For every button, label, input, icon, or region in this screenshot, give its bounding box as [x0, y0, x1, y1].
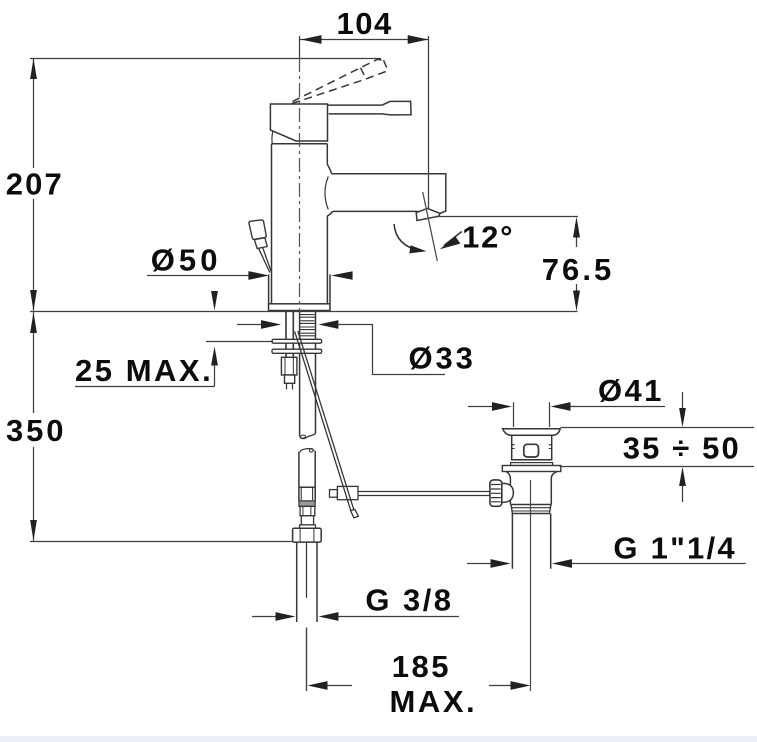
drain centerline — [530, 480, 532, 691]
supply tube lower section — [299, 451, 315, 488]
svg-text:G 1"1/4: G 1"1/4 — [613, 531, 735, 566]
svg-text:185: 185 — [392, 649, 449, 684]
centerline extension above faucet — [299, 36, 301, 58]
dim 76.5 vertical line — [576, 236, 578, 292]
svg-text:Ø33: Ø33 — [409, 341, 473, 376]
knurled nut lobe — [502, 483, 514, 502]
bottom light strip — [0, 736, 757, 742]
12deg reference slanted line — [423, 192, 438, 261]
25 max lower arrow (up) with stem — [211, 347, 218, 366]
svg-text:G 3/8: G 3/8 — [365, 583, 451, 618]
svg-text:350: 350 — [6, 413, 63, 448]
12deg swing arc — [394, 224, 420, 251]
drain neck seam lines — [514, 459, 551, 461]
12deg label leader line — [444, 232, 462, 246]
svg-text:12°: 12° — [462, 219, 512, 254]
dim 185 line right with arrow — [489, 685, 512, 687]
dim 350 bottom reference line — [30, 541, 293, 543]
dim G1-1/4 left arrow — [491, 559, 511, 568]
svg-text:Ø50: Ø50 — [151, 243, 218, 278]
dim O33 left arrow — [261, 320, 281, 329]
mounting nut — [281, 357, 297, 375]
hub/body seam ring — [272, 143, 328, 145]
pop-up knob on body — [249, 220, 266, 239]
svg-text:207: 207 — [6, 166, 62, 201]
dim 207 top reference line — [30, 58, 381, 60]
washer plate 2 — [272, 349, 322, 353]
deck surface line — [30, 311, 578, 313]
drain collar band — [511, 463, 553, 466]
dim O33 leader to label — [337, 325, 445, 375]
spout/body junction arc — [325, 177, 328, 210]
spout — [332, 174, 446, 214]
dim 104 right extension line — [428, 36, 430, 208]
drain locknut — [511, 505, 551, 514]
dim O50 leader line with right-pointing arrow — [147, 275, 251, 277]
knurled nut — [490, 480, 502, 506]
fitting olive section — [300, 506, 315, 515]
dim G3/8 right arrow — [319, 612, 339, 621]
drain neck body — [512, 435, 552, 460]
aerator nozzle (12deg face) — [416, 208, 440, 220]
dim O33 line left part — [237, 324, 263, 326]
25 max underline — [75, 386, 215, 388]
base ring (O50) — [269, 274, 330, 303]
lever handle (horizontal) — [327, 101, 411, 115]
linkage clamp block — [337, 486, 358, 499]
threaded shank below deck — [299, 312, 315, 435]
25 max lower reference line — [206, 341, 273, 343]
dim O41 line — [468, 406, 665, 408]
pop-up knob stem — [259, 248, 271, 273]
dim 104 line — [300, 39, 428, 41]
fitting collar — [300, 525, 316, 528]
knurl ridges — [491, 485, 501, 502]
dim 350 top arrow — [30, 312, 37, 333]
base plate — [269, 304, 331, 311]
dim 76.5 top reference line — [436, 216, 578, 218]
drain body below flange — [506, 472, 557, 505]
drain wide flange — [502, 466, 561, 472]
faucet centerline (dash-dot) — [299, 58, 301, 311]
stud tip — [287, 383, 293, 389]
12deg leader arrowhead — [440, 236, 461, 249]
svg-text:MAX.: MAX. — [390, 684, 475, 719]
dim 350 vertical line — [33, 312, 35, 541]
washer plate 1 — [272, 339, 322, 343]
pop-up rod foot — [351, 509, 359, 517]
svg-text:25 MAX.: 25 MAX. — [75, 353, 211, 388]
dim O41 left arrow — [492, 402, 512, 411]
25 max upper arrow (down) — [211, 291, 218, 310]
dim G3/8 left arrow — [276, 612, 296, 621]
12deg swing arc arrowhead — [409, 245, 426, 253]
horizontal linkage rod — [358, 492, 490, 496]
drain top flange — [503, 429, 561, 436]
35-50 lower reference line — [560, 466, 755, 468]
dim 207 top arrow — [30, 58, 37, 79]
svg-text:35 ÷ 50: 35 ÷ 50 — [623, 430, 739, 465]
handle hub — [270, 104, 327, 141]
nut lower collar — [285, 375, 295, 383]
dim 76.5 bottom arrow — [573, 291, 580, 312]
shank thread lines — [300, 315, 316, 336]
dim 207 bottom arrow — [30, 290, 37, 311]
35-50 upper arrow (down) with stem — [682, 392, 684, 409]
dim 185 left extension line — [306, 628, 308, 692]
dim G3/8 line — [252, 616, 459, 618]
dim 104 right arrow — [408, 35, 429, 44]
supply pipe centerline below — [306, 628, 308, 692]
dim O41 extension lines — [514, 402, 550, 427]
G3/8 hex nut — [293, 528, 322, 542]
fitting narrow section — [301, 516, 313, 525]
lever raised position (dashed outline) — [292, 59, 388, 103]
supply tube resume ellipse — [300, 449, 314, 453]
dim G1-1/4 line — [467, 563, 746, 565]
fitting seal band (dark) — [299, 501, 315, 507]
dim O33 right arrow — [318, 320, 338, 329]
35-50 upper reference line — [561, 427, 755, 429]
dim 76.5 top arrow — [573, 217, 580, 238]
pop-up drain rod (diagonal) — [295, 331, 355, 512]
svg-text:104: 104 — [337, 6, 393, 41]
fitting band 1 — [299, 486, 315, 488]
dim 104 left arrow — [301, 35, 322, 44]
supply tube cut (break) — [300, 434, 316, 439]
dim O41 right arrow — [551, 402, 571, 411]
overflow window — [524, 444, 539, 457]
dim 185 line left with arrow — [327, 685, 352, 687]
supply pipe inner line — [306, 542, 308, 598]
mounting stud rods — [286, 312, 293, 357]
svg-text:76.5: 76.5 — [542, 252, 612, 287]
G3/8 supply pipe — [297, 542, 317, 622]
horizontal linkage rod end cap — [330, 490, 338, 498]
35-50 lower arrow (up) with stem — [679, 467, 686, 486]
dim 350 bottom arrow — [30, 520, 37, 541]
pop-up knob ferrule — [254, 238, 267, 249]
faucet body — [272, 144, 328, 304]
dim O50 right lone arrow pointing left — [331, 271, 353, 280]
dim 207 vertical line — [33, 59, 35, 311]
drain tailpipe — [512, 514, 550, 569]
dim G1-1/4 right arrow — [552, 559, 572, 568]
svg-text:Ø41: Ø41 — [598, 373, 661, 408]
drain neck side jogs — [512, 445, 552, 449]
